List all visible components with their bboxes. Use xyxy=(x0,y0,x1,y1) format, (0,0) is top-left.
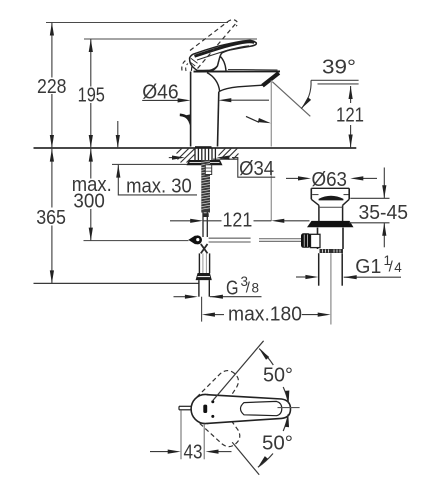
50 degree radial line bottom xyxy=(232,442,259,475)
50 degree radial line top xyxy=(213,341,264,401)
50 degree arc top xyxy=(259,349,273,365)
rod end cap xyxy=(203,213,208,217)
mounting deck line xyxy=(34,147,357,149)
lever inner detail xyxy=(241,401,282,415)
dimension 228 line xyxy=(51,23,53,149)
svg-text:max. 30: max. 30 xyxy=(126,174,192,197)
43 extension line left xyxy=(180,411,182,460)
svg-text:365: 365 xyxy=(36,206,66,229)
spout underside fillet xyxy=(207,73,263,92)
drain plug dark band xyxy=(319,196,344,201)
39 degree horizontal ref line xyxy=(311,79,359,81)
svg-text:121: 121 xyxy=(223,208,253,231)
pop-up horizontal rod segment 1 xyxy=(209,237,251,239)
svg-text:8: 8 xyxy=(252,281,260,296)
raised handle dashed arcs near pivot xyxy=(182,60,187,71)
handle tail facet lines xyxy=(190,58,198,66)
39 degree arc xyxy=(301,80,311,108)
dimension 365 line xyxy=(51,149,53,284)
drain neck xyxy=(318,205,320,221)
handle pivot circle (top view) xyxy=(191,394,219,423)
G3/8 left arrow xyxy=(174,296,187,298)
extension line handle-rest height ref xyxy=(84,38,257,40)
pop-up rod below shank xyxy=(202,213,204,238)
mounting shank (striped) xyxy=(195,148,215,160)
svg-text:228: 228 xyxy=(37,75,67,98)
39 degree slant line xyxy=(272,82,310,117)
handle inner shading line xyxy=(197,46,249,60)
svg-text:/: / xyxy=(389,259,394,276)
G3/8 hose nut xyxy=(196,273,212,280)
drain rod clamp knob xyxy=(301,233,311,248)
raised handle dashed line A xyxy=(190,22,228,51)
G1 1/4 underline leader with arrow xyxy=(344,276,401,278)
drain thread band xyxy=(320,249,344,253)
svg-text:35-45: 35-45 xyxy=(359,201,409,224)
svg-text:43: 43 xyxy=(184,441,203,464)
drain tailpipe xyxy=(318,253,320,286)
faucet body column right edge xyxy=(218,92,219,147)
hose tube xyxy=(198,253,200,273)
flange taper xyxy=(311,199,319,205)
drain body xyxy=(317,228,319,249)
svg-text:max.180: max.180 xyxy=(228,303,302,326)
Ø34 left arrow xyxy=(169,157,173,159)
pop-up horizontal rod segment 2 xyxy=(259,238,303,240)
svg-text:Ø63: Ø63 xyxy=(312,168,348,191)
G1 1/4 left arrow xyxy=(296,276,307,278)
50 degree arc bottom xyxy=(283,414,288,431)
svg-text:4: 4 xyxy=(394,260,402,275)
dimension 121 middle xyxy=(170,220,310,222)
dimension max.30 xyxy=(117,121,119,148)
ball joint of pop-up rod xyxy=(188,235,195,244)
drain rubber washer xyxy=(307,221,354,227)
pop-up rod level extension line xyxy=(84,240,189,242)
svg-text:50°: 50° xyxy=(262,432,293,455)
flow direction arrow xyxy=(246,116,259,122)
upper dashed handle position xyxy=(197,364,246,415)
G3/8 underline leader with arrow xyxy=(210,296,262,298)
handle (side view) outline xyxy=(190,40,257,70)
bottom extension line (365 ref) xyxy=(34,282,199,284)
outlet level extension line xyxy=(318,83,359,85)
svg-text:G1: G1 xyxy=(355,255,381,278)
pivot dome right edge xyxy=(219,55,226,71)
dimension 121 right xyxy=(350,86,352,148)
raised handle dashed line B xyxy=(198,24,236,69)
drain side port box xyxy=(311,234,321,247)
faucet body column left edge xyxy=(190,72,192,147)
washer-bottom extension line xyxy=(112,163,190,165)
spout outlet vertical reference line xyxy=(270,81,272,147)
rod stepped fitting xyxy=(205,165,211,175)
svg-text:300: 300 xyxy=(73,190,104,213)
Ø46 right-side arrow xyxy=(231,99,270,101)
hose end tube xyxy=(198,280,200,297)
drain centerline xyxy=(330,253,332,324)
extension line top (raised-handle height ref) xyxy=(46,22,228,24)
lever centerline xyxy=(278,407,300,409)
handle top dark streak xyxy=(195,42,255,56)
deck bottom line right xyxy=(213,158,238,160)
svg-text:39°: 39° xyxy=(322,56,356,79)
grip front inner line xyxy=(218,54,221,64)
dimension 43 arrows xyxy=(150,451,169,453)
mounting washer xyxy=(187,160,223,165)
lower dashed handle position xyxy=(197,402,246,453)
deck hatching left xyxy=(177,148,195,162)
spout tip dark wedge xyxy=(263,73,279,86)
svg-text:Ø34: Ø34 xyxy=(239,157,274,180)
pivot slot xyxy=(203,405,207,413)
faucet base shank top xyxy=(195,146,212,148)
spout rim second line xyxy=(228,68,278,71)
faucet body top edge xyxy=(194,70,281,72)
pivot stub pin xyxy=(179,405,192,407)
dimension 35-45 xyxy=(350,197,389,199)
dimension max.300 line xyxy=(90,149,92,241)
dimension max.180 xyxy=(214,314,224,316)
svg-text:195: 195 xyxy=(78,84,105,107)
43 extension line right xyxy=(203,424,205,460)
pivot dome left edge xyxy=(191,59,195,71)
lever (top view) xyxy=(207,395,291,424)
raised handle dashed tip cap xyxy=(228,20,238,26)
svg-text:50°: 50° xyxy=(263,364,293,387)
drain flange xyxy=(311,187,349,189)
svg-text:121: 121 xyxy=(336,104,364,127)
crossed flexible hoses xyxy=(201,244,208,253)
threaded rod xyxy=(201,160,210,213)
grip bottom hook xyxy=(210,66,218,70)
deck hatching right xyxy=(219,148,239,159)
dimension 195 line xyxy=(90,39,92,148)
pivot dots xyxy=(211,400,214,403)
svg-text:/: / xyxy=(246,280,251,297)
small curved arrow at column edge xyxy=(180,115,190,121)
Ø63 arrows xyxy=(286,177,299,179)
extension line below hose xyxy=(201,297,203,322)
